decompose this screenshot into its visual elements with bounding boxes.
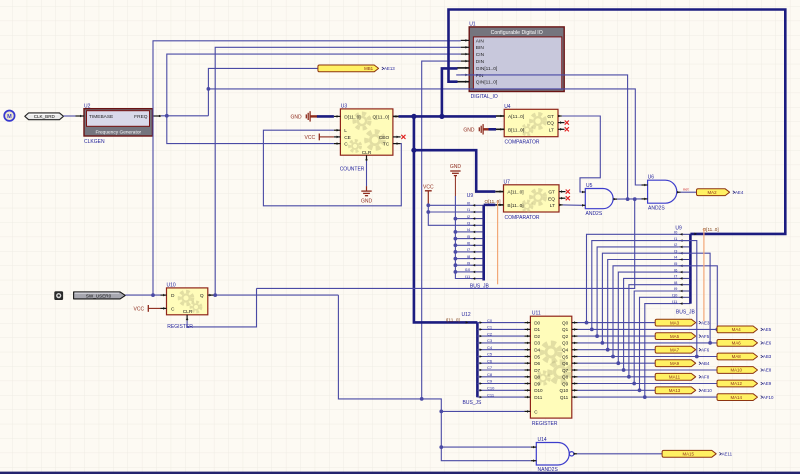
wire Q3 up to joiner I3	[602, 253, 678, 343]
wire FIN long horizontal	[456, 75, 627, 199]
wire to U14 in1	[441, 446, 531, 448]
svg-text:MB1: MB1	[364, 66, 374, 71]
wire Q11 up to joiner I11	[645, 304, 679, 398]
svg-text:C: C	[344, 142, 348, 148]
svg-text:EQ: EQ	[547, 121, 554, 127]
svg-text:MA3: MA3	[670, 320, 680, 325]
wire Q6 up to joiner I6	[618, 272, 678, 363]
svg-text:O[11..0]: O[11..0]	[703, 227, 719, 232]
junction U11 C branch	[439, 410, 443, 414]
junction GND-I10	[454, 270, 458, 274]
wire Q9 to port	[578, 383, 717, 385]
U5 output pin	[613, 198, 617, 200]
port MA3	[655, 319, 696, 326]
svg-text:AE13: AE13	[384, 66, 395, 71]
svg-text:C11: C11	[487, 392, 495, 397]
wire DIN net vertical	[422, 61, 461, 399]
svg-text:net: net	[683, 186, 689, 191]
svg-text:D10: D10	[534, 388, 543, 393]
svg-text:VCC: VCC	[305, 135, 316, 141]
U4 pin stubs	[496, 115, 504, 117]
svg-text:CIN: CIN	[476, 52, 485, 58]
svg-text:Q0: Q0	[562, 320, 569, 325]
junction Q9 tap	[632, 382, 636, 386]
svg-text:Q: Q	[200, 293, 204, 299]
svg-text:QIN[11..0]: QIN[11..0]	[476, 80, 498, 86]
sheet-symbol U1 Configurable Digital IO	[469, 27, 564, 92]
junction FREQ at U6 branch	[207, 87, 211, 91]
svg-text:M: M	[7, 114, 12, 120]
svg-text:GND: GND	[291, 114, 303, 120]
U1 pin stubs AIN BIN CIN DIN	[461, 39, 470, 41]
svg-text:D9: D9	[534, 381, 540, 386]
svg-text:C6: C6	[487, 358, 493, 363]
wire U12 C5 to U11 D5	[477, 356, 524, 358]
svg-text:Q1: Q1	[562, 327, 569, 332]
sheet edge bottom	[0, 472, 800, 474]
U1 pin GIN[11..0]	[457, 67, 469, 69]
U5 input pins	[582, 191, 585, 193]
svg-text:MA8: MA8	[732, 354, 742, 359]
wire I5 right vertical	[678, 266, 717, 330]
port MA10	[717, 367, 758, 374]
bus GND to D[11..0]	[317, 115, 334, 118]
wire Q7 up to joiner I7	[624, 278, 679, 370]
junction Q2 tap	[595, 334, 599, 338]
junction Q4 tap	[606, 348, 610, 352]
wire Q7 to port	[578, 369, 717, 371]
svg-text:AE6: AE6	[763, 341, 772, 346]
port MA9	[655, 360, 696, 367]
svg-text:U9: U9	[467, 193, 474, 199]
wire Q3 to port	[578, 342, 717, 344]
wire Q0 up to joiner I0	[587, 234, 679, 322]
svg-text:MA11: MA11	[669, 375, 681, 380]
junction FREQ at CIN branch	[165, 114, 169, 118]
svg-text:A[11..0]: A[11..0]	[508, 114, 524, 120]
U11 pin stubs	[524, 322, 530, 324]
junction U14 in1 branch	[439, 445, 443, 449]
svg-text:Q6: Q6	[562, 361, 569, 366]
svg-text:MA5: MA5	[670, 334, 680, 339]
svg-text:C9: C9	[487, 379, 493, 384]
junction GND-I7	[454, 250, 458, 254]
button icon	[54, 291, 63, 300]
U9 right joiner pins I0-I11	[678, 233, 690, 235]
wire U12 C9 to U11 D9	[477, 383, 524, 385]
svg-text:AB3: AB3	[763, 354, 772, 359]
power VCC at left joiner	[425, 190, 432, 192]
svg-text:AE8: AE8	[763, 368, 772, 373]
svg-text:MA4: MA4	[732, 327, 742, 332]
block U4 COMPARATOR	[504, 109, 558, 136]
svg-text:D6: D6	[534, 361, 540, 366]
junction GND-I2	[454, 217, 458, 221]
junction Q11 tap	[643, 395, 647, 399]
U1 pin FIN	[461, 74, 469, 76]
bus up to U1 GIN	[442, 68, 458, 116]
wire Q6 to port	[578, 362, 656, 364]
svg-text:U6: U6	[648, 175, 655, 181]
U3 right pin stubs	[393, 115, 400, 117]
svg-text:GND: GND	[463, 127, 475, 133]
wire FREQ to MB1 and U6	[161, 115, 208, 117]
block U10 REGISTER	[167, 288, 208, 315]
ground GND at left joiner	[450, 170, 460, 172]
wire I1 right vertical	[678, 241, 697, 357]
junction Q8 tap	[627, 375, 631, 379]
wire BIN net (U10.Q to U1 BIN)	[215, 47, 461, 295]
wire Q11 to port	[578, 396, 717, 398]
U14 input pins	[531, 446, 536, 448]
svg-text:MA15: MA15	[682, 452, 694, 457]
svg-text:D[11..0]: D[11..0]	[344, 114, 360, 120]
bus-joiner U9 (left) BUS_JB	[482, 205, 485, 281]
junction AIN net at U10 D wire	[151, 293, 155, 297]
junction Q3 tap	[601, 341, 605, 345]
svg-text:C10: C10	[487, 386, 495, 391]
wire U12 C0 to U11 D0	[477, 322, 524, 324]
wire U12 C8 to U11 D8	[477, 376, 524, 378]
wire SW_USER0 to U10 D	[125, 294, 160, 296]
svg-text:C: C	[171, 307, 175, 313]
junction right vertical at Q1 row	[715, 328, 719, 332]
svg-text:C2: C2	[487, 331, 493, 336]
svg-text:D2: D2	[534, 334, 540, 339]
wire I9 to GND rail	[455, 264, 471, 266]
svg-text:MA2: MA2	[707, 190, 717, 195]
svg-text:MA14: MA14	[730, 395, 742, 400]
wire U12 C6 to U11 D6	[477, 362, 524, 364]
port MA6	[717, 340, 758, 347]
svg-text:C4: C4	[487, 345, 493, 350]
wire AIN net (SW_USER0/U10.D to U1 AIN)	[153, 41, 461, 295]
svg-text:MA10: MA10	[730, 368, 742, 373]
svg-text:U12: U12	[462, 312, 471, 318]
svg-text:SW_USER0: SW_USER0	[86, 293, 112, 298]
svg-text:MA9: MA9	[670, 361, 680, 366]
svg-text:D5: D5	[534, 354, 540, 359]
wire U12 C1 to U11 D1	[477, 328, 524, 330]
junction Q5 tap	[611, 355, 615, 359]
svg-text:Q5: Q5	[562, 354, 569, 359]
svg-text:L: L	[344, 128, 347, 134]
port MA13	[655, 387, 696, 394]
svg-text:U4: U4	[504, 104, 511, 110]
wire Q1 up to joiner I1	[592, 241, 679, 330]
junction GND-I8	[454, 257, 458, 261]
svg-text:D4: D4	[534, 348, 540, 353]
svg-text:AE10: AE10	[701, 388, 712, 393]
port MA2	[697, 189, 730, 196]
svg-text:GND: GND	[361, 198, 373, 204]
svg-text:AE3: AE3	[701, 320, 710, 325]
svg-text:LT: LT	[550, 203, 555, 209]
svg-text:FIN: FIN	[476, 73, 484, 79]
wire Q5 up to joiner I5	[613, 266, 678, 357]
svg-text:Frequency Generator: Frequency Generator	[95, 129, 141, 135]
bus-joiner U9 (right) BUS_JB	[689, 234, 692, 304]
wire U14 output to port MA15	[577, 453, 662, 455]
wire U4.GT to U5.in1	[562, 116, 601, 192]
wire Q0 to port	[578, 322, 656, 324]
svg-text:U11: U11	[532, 310, 541, 316]
wire U12 C7 to U11 D7	[477, 369, 524, 371]
svg-text:Q3: Q3	[562, 341, 569, 346]
wire Q8 up to joiner I8	[629, 285, 678, 377]
U10 CLR bottom pin	[186, 315, 188, 321]
junction DIN net at clock wire	[420, 397, 424, 401]
wire I4 to GND rail	[455, 231, 471, 233]
wire U3.TC to U3.L loop	[263, 130, 401, 206]
svg-text:BUS_JS: BUS_JS	[463, 400, 483, 406]
svg-text:C3: C3	[487, 338, 493, 343]
svg-text:C8: C8	[487, 372, 493, 377]
wire Q1 to port	[578, 328, 717, 330]
svg-text:AF5: AF5	[701, 334, 710, 339]
U2 pin FREQ	[153, 115, 162, 117]
wire to U11 C pin	[441, 410, 524, 412]
bus-splitter U12 BUS_JS	[476, 322, 479, 397]
junction GND-I6	[454, 243, 458, 247]
orange directive line left	[497, 201, 499, 285]
U3 CLR bottom pin	[366, 155, 368, 161]
svg-text:AE4: AE4	[735, 190, 744, 195]
port MA11	[655, 373, 696, 380]
svg-text:COMPARATOR: COMPARATOR	[505, 215, 540, 221]
wire I10 to GND rail	[455, 271, 471, 273]
svg-text:FREQ: FREQ	[134, 114, 148, 120]
wire Q4 to port	[578, 349, 656, 351]
blue probe icon	[4, 111, 14, 121]
junction right vertical at Q5 row	[695, 355, 699, 359]
ground GND below U3	[361, 190, 371, 192]
junction VCC-I0	[426, 203, 430, 207]
junction Q6 tap	[616, 361, 620, 365]
svg-text:DIGITAL_IO: DIGITAL_IO	[471, 94, 498, 100]
svg-text:GT: GT	[547, 114, 554, 120]
svg-text:AE11: AE11	[722, 452, 733, 457]
wire I0 to VCC rail	[428, 204, 471, 206]
svg-text:D11: D11	[534, 395, 543, 400]
junction GND-I5	[454, 237, 458, 241]
svg-text:D7: D7	[534, 368, 540, 373]
junction Q0 tap	[585, 321, 589, 325]
svg-text:AE9: AE9	[763, 381, 772, 386]
svg-text:REGISTER: REGISTER	[532, 421, 558, 427]
svg-text:AND2S: AND2S	[586, 211, 603, 217]
wire U7.LT to U5.in2	[563, 204, 582, 206]
svg-text:D8: D8	[534, 375, 540, 380]
no-ERC markers U4 EQ LT	[565, 121, 569, 125]
svg-text:BUS_JB: BUS_JB	[470, 283, 490, 289]
U2 pin TIMEBASE	[76, 115, 85, 117]
wire long horizontal to U10 CLR	[187, 288, 256, 327]
wire Q2 up to joiner I2	[597, 247, 678, 336]
wire U12 C11 to U11 D11	[477, 396, 524, 398]
svg-text:B[11..0]: B[11..0]	[508, 127, 524, 133]
svg-text:EQ: EQ	[548, 196, 555, 202]
bus down to U7.A and U12	[414, 116, 478, 322]
svg-text:AND2S: AND2S	[648, 206, 665, 212]
svg-text:Configurable Digital IO: Configurable Digital IO	[491, 30, 543, 36]
wire U12 C4 to U11 D4	[477, 349, 524, 351]
U6 input pins	[642, 184, 648, 186]
U12 pin wire to I bus	[466, 321, 469, 324]
wire U12 C2 to U11 D2	[477, 335, 524, 337]
port MB1	[318, 65, 379, 72]
svg-text:U5: U5	[586, 183, 593, 189]
bus QIN loop around top	[449, 10, 786, 234]
wire I5 to GND rail	[455, 238, 471, 240]
svg-text:Q9: Q9	[562, 381, 569, 386]
svg-text:AB4: AB4	[701, 361, 710, 366]
wire clock net to U11.C and U14	[338, 295, 531, 461]
svg-text:MA13: MA13	[669, 388, 681, 393]
svg-text:Q11: Q11	[560, 395, 569, 400]
svg-text:AF10: AF10	[763, 395, 774, 400]
svg-text:Q7: Q7	[562, 368, 569, 373]
wire Q9 up to joiner I9	[634, 291, 678, 384]
U3 left pin stubs	[334, 115, 341, 117]
svg-text:CEO: CEO	[379, 135, 390, 141]
svg-text:CLR: CLR	[183, 309, 193, 315]
svg-text:AE5: AE5	[763, 327, 772, 332]
svg-text:AF8: AF8	[701, 375, 710, 380]
svg-text:D3: D3	[534, 341, 540, 346]
svg-text:B[11..0]: B[11..0]	[507, 203, 523, 209]
bus Q[11..0] from U3 to U4.A	[399, 115, 497, 118]
port MA5	[655, 333, 696, 340]
U1 pin QIN[11..0]	[457, 81, 469, 83]
svg-text:CLR: CLR	[362, 150, 372, 156]
junction Q10 tap	[638, 388, 642, 392]
junction GND-I9	[454, 263, 458, 267]
svg-text:GIN[11..0]: GIN[11..0]	[476, 66, 498, 72]
and-gate U5 AND2S	[585, 188, 613, 208]
wire U6.out to port MA2	[681, 191, 697, 193]
svg-text:C0: C0	[487, 318, 493, 323]
svg-text:Q10: Q10	[560, 388, 569, 393]
wire Q10 to port	[578, 389, 656, 391]
svg-text:GND: GND	[450, 164, 462, 170]
svg-text:DIN: DIN	[476, 59, 485, 65]
svg-text:Q2: Q2	[562, 334, 569, 339]
wire U10.Q to vertical	[214, 294, 339, 296]
junction right vertical at Q3 row	[708, 341, 712, 345]
wire I7 to GND rail	[455, 251, 471, 253]
svg-text:AIN: AIN	[476, 38, 485, 44]
svg-text:U14: U14	[538, 437, 547, 443]
wire Q10 up to joiner I10	[640, 297, 679, 390]
U10 pin stubs	[161, 294, 167, 296]
wire U12 C3 to U11 D3	[477, 342, 524, 344]
svg-text:GT: GT	[548, 190, 555, 196]
U14 output pin	[574, 453, 577, 455]
wire CIN net (FREQ to U1 CIN)	[167, 54, 461, 116]
svg-text:I11: I11	[672, 299, 678, 304]
port MA4	[717, 326, 758, 333]
wire Q5 to port	[578, 356, 717, 358]
svg-text:TIMEBASE: TIMEBASE	[89, 114, 113, 120]
U7 pin stubs	[495, 191, 503, 193]
svg-text:CLK_BRD: CLK_BRD	[34, 114, 56, 119]
wire CLK_BRD to U2	[64, 115, 76, 117]
orange directive line right	[703, 229, 705, 322]
svg-text:LT: LT	[549, 127, 554, 133]
U9 left pins I0-I11	[471, 204, 484, 206]
wire Q8 to port	[578, 376, 656, 378]
svg-text:MA6: MA6	[732, 341, 742, 346]
svg-text:U7: U7	[504, 179, 511, 185]
wire Q4 up to joiner I4	[608, 260, 679, 350]
bus junction at x413 y150	[411, 148, 416, 153]
svg-text:D1: D1	[534, 327, 540, 332]
port SW_USER0	[74, 292, 126, 299]
wire I6 to GND rail	[455, 244, 471, 246]
no-ERC marker U3 CEO	[401, 135, 405, 139]
wire I2 to GND rail	[455, 218, 471, 220]
no-ERC markers U7 GT EQ	[566, 190, 570, 194]
svg-text:CLKGEN: CLKGEN	[84, 139, 105, 145]
svg-text:U10: U10	[167, 282, 176, 288]
svg-text:TC: TC	[383, 142, 390, 148]
nand-gate U14 NAND2S	[536, 443, 569, 466]
junction BIN net at U10 Q wire	[213, 293, 217, 297]
svg-text:C1: C1	[487, 325, 493, 330]
svg-text:C5: C5	[487, 352, 493, 357]
svg-text:MA7: MA7	[670, 347, 680, 352]
port MA15	[662, 450, 716, 457]
port MA14	[717, 394, 758, 401]
junction VCC-I1	[426, 210, 430, 214]
svg-text:U2: U2	[84, 103, 91, 109]
svg-text:CE: CE	[344, 135, 351, 141]
svg-text:VCC: VCC	[423, 185, 434, 191]
wire I3 right vertical	[678, 253, 710, 343]
wire U5.out to U6.in2	[617, 198, 642, 200]
bus junction at x442	[439, 114, 444, 119]
junction clock tap at U5 out wire	[633, 197, 637, 201]
block U7 COMPARATOR	[504, 185, 560, 212]
port MA8	[717, 353, 758, 360]
wire U12 C10 to U11 D10	[477, 389, 524, 391]
svg-text:BIN: BIN	[476, 45, 485, 51]
svg-text:I[11..0]: I[11..0]	[446, 318, 460, 323]
svg-text:A[11..0]: A[11..0]	[507, 190, 523, 196]
wire U5out net down to long horizontal	[257, 199, 635, 288]
junction Q7 tap	[622, 368, 626, 372]
svg-text:Q4: Q4	[562, 348, 569, 353]
svg-text:AF6: AF6	[701, 347, 710, 352]
wire FREQ long horizontal to U6.in1	[208, 89, 641, 185]
wire U3 CLR to GND	[366, 161, 368, 186]
svg-text:COUNTER: COUNTER	[340, 166, 365, 172]
wire I1 to VCC rail	[428, 211, 471, 213]
svg-text:D: D	[171, 293, 175, 299]
port CLK_BRD	[25, 113, 64, 120]
svg-text:VCC: VCC	[134, 307, 145, 313]
block U11 REGISTER	[530, 316, 571, 418]
svg-text:Q8: Q8	[562, 375, 569, 380]
port MA7	[655, 346, 696, 353]
svg-text:U1: U1	[469, 22, 476, 28]
junction GND-I4	[454, 230, 458, 234]
svg-text:U3: U3	[341, 103, 348, 109]
wire Q2 to port	[578, 335, 656, 337]
bus junction at x413	[411, 114, 416, 119]
block U3 COUNTER	[340, 109, 393, 155]
